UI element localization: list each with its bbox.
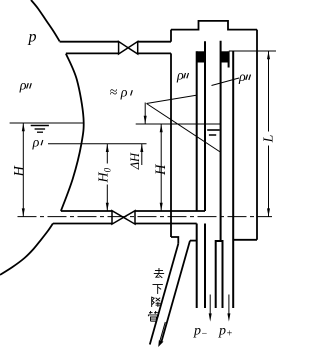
inner tube cap below vessel	[216, 241, 223, 308]
p+ flow arrow	[228, 295, 230, 316]
svg-text:ρ: ρ	[19, 79, 27, 94]
downcomer flow arrow	[159, 322, 165, 343]
wire bottom pipe upper line (valve V2 to tube T1)	[135, 210, 205, 212]
tube T1 right wall / central chamber left wall	[204, 41, 206, 211]
leader from approx-rho-prime to tube T1	[147, 95, 197, 103]
wire top pipe upper line (valve V1 to vessel)	[138, 41, 171, 43]
vessel reference level line	[136, 123, 221, 125]
vessel left wall lower part	[170, 53, 172, 237]
leader from rho-double-prime right label	[212, 78, 240, 86]
label qu (to)	[154, 268, 164, 278]
svg-text:H: H	[153, 163, 169, 176]
vessel right wall	[256, 30, 258, 240]
valve V1 (steam-side isolation valve)	[119, 42, 138, 55]
svg-text:L: L	[262, 134, 276, 143]
label xia (down)	[153, 285, 163, 294]
svg-text:≈: ≈	[110, 86, 118, 101]
wire top pipe lower line (drum to valve V1)	[66, 52, 119, 54]
vessel left wall upper part	[170, 30, 172, 42]
label jiang (comer)	[152, 297, 161, 307]
svg-text:ρ: ρ	[120, 86, 128, 101]
tube T1 black top section	[197, 51, 205, 62]
drum water level line	[10, 122, 84, 124]
leader from approx-rho-prime to chamber water	[147, 104, 222, 153]
tube T2 black top section	[221, 51, 229, 62]
nominal level line (H0 reference)	[48, 143, 147, 145]
vessel floor right segment	[233, 239, 257, 241]
drum wall middle arc	[61, 54, 84, 211]
wire bottom pipe lower line (drum to valve V2)	[53, 223, 112, 225]
dimension H (vessel side)	[160, 124, 162, 211]
tube T1 left wall (upper)	[196, 51, 198, 211]
centerline (dash-dot axis of water impulse pipe)	[18, 216, 273, 218]
svg-text:ΔH: ΔH	[128, 152, 142, 170]
tube T2 right wall (continues down)	[232, 51, 234, 308]
svg-text:ρ: ρ	[176, 68, 184, 83]
downcomer pipe left wall	[150, 244, 179, 345]
vessel water surface symbol	[207, 129, 219, 131]
tube T2 inner pipe stub	[228, 51, 230, 67]
vessel stepped top cap	[171, 21, 257, 30]
wire bottom pipe lower line (valve V2 to tube T1)	[135, 223, 197, 225]
valve V2 (water-side isolation valve)	[112, 211, 135, 224]
dimension Delta-H upper pointer	[144, 103, 146, 125]
dimension H (drum level above axis), left	[22, 123, 24, 217]
p- flow arrow	[209, 295, 211, 316]
downcomer pipe right wall	[162, 241, 191, 342]
drum wall upper arc	[31, 0, 60, 41]
drum water surface symbol	[31, 125, 49, 127]
svg-text:p: p	[28, 29, 37, 46]
tube T2 left wall / central chamber right wall	[220, 41, 222, 241]
svg-text:ρ: ρ	[238, 70, 246, 85]
wire top pipe upper line (drum to valve V1)	[60, 41, 119, 43]
svg-text:ρ: ρ	[32, 135, 40, 150]
vessel floor left segment	[190, 240, 197, 242]
drum wall lower arc	[0, 224, 53, 275]
wire bottom pipe upper line (drum to valve V2)	[61, 210, 112, 212]
dimension Delta-H lower pointer	[141, 144, 143, 165]
upper reference line (L datum)	[229, 50, 276, 52]
tube T1 right wall below pipe (p- impulse line)	[204, 224, 206, 309]
wire top pipe lower line (valve V1 to vessel)	[138, 52, 171, 54]
tube T1 left wall below pipe (p- impulse line)	[196, 224, 198, 309]
dimension H0	[106, 144, 108, 164]
label guan (pipe)	[148, 311, 158, 321]
svg-text:H: H	[12, 165, 28, 178]
vessel bottom-left step	[171, 237, 178, 244]
dimension L	[268, 51, 270, 132]
